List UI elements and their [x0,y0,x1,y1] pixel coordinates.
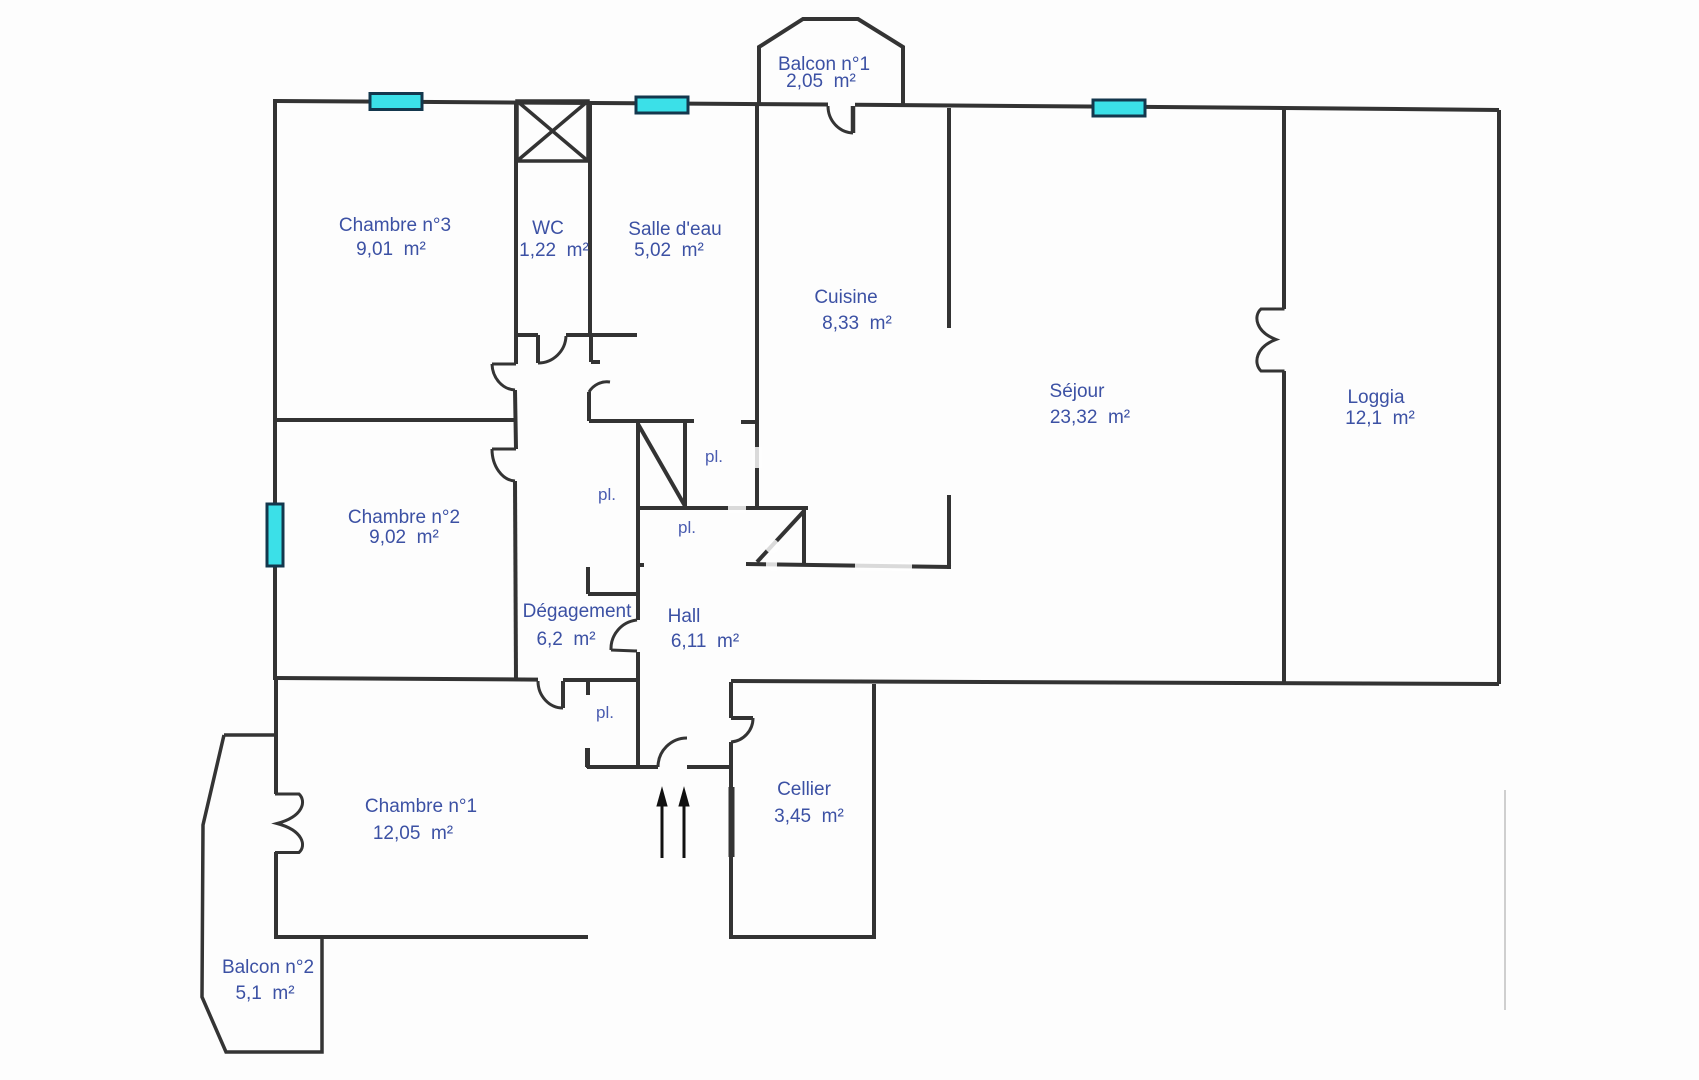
svg-text:2,05 m²: 2,05 m² [786,71,856,92]
svg-text:Dégagement: Dégagement [523,601,633,622]
svg-text:23,32 m²: 23,32 m² [1050,407,1130,428]
svg-text:pl.: pl. [598,485,616,504]
svg-text:1,22 m²: 1,22 m² [519,240,589,261]
svg-text:12,1 m²: 12,1 m² [1345,408,1415,429]
svg-text:Cellier: Cellier [777,779,832,800]
svg-text:5,02 m²: 5,02 m² [634,240,704,261]
svg-text:WC: WC [532,218,564,239]
svg-text:12,05 m²: 12,05 m² [373,823,453,844]
svg-text:Loggia: Loggia [1347,387,1404,408]
svg-text:8,33 m²: 8,33 m² [822,313,892,334]
svg-text:9,01 m²: 9,01 m² [356,239,426,260]
svg-text:Chambre n°3: Chambre n°3 [339,215,451,236]
svg-text:3,45 m²: 3,45 m² [774,806,844,827]
svg-text:Hall: Hall [668,606,701,627]
svg-text:Séjour: Séjour [1050,381,1106,402]
svg-text:Balcon n°2: Balcon n°2 [222,957,314,978]
svg-text:pl.: pl. [705,447,723,466]
svg-text:9,02 m²: 9,02 m² [369,527,439,548]
svg-text:6,2 m²: 6,2 m² [536,629,595,650]
svg-text:6,11 m²: 6,11 m² [671,631,739,652]
svg-text:pl.: pl. [678,518,696,537]
svg-text:Chambre n°2: Chambre n°2 [348,507,460,528]
svg-text:Cuisine: Cuisine [814,287,877,308]
svg-text:5,1 m²: 5,1 m² [235,983,294,1004]
svg-text:Chambre n°1: Chambre n°1 [365,796,477,817]
svg-text:Salle d'eau: Salle d'eau [628,219,721,240]
svg-text:pl.: pl. [596,703,614,722]
